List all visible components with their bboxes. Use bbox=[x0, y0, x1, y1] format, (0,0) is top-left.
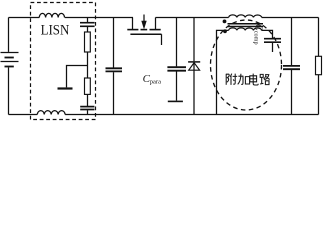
wire C_para branch bbox=[176, 18, 178, 67]
resistor LISN R2 bbox=[85, 78, 91, 94]
label C_comp bbox=[253, 24, 264, 45]
text 路 bbox=[260, 74, 270, 85]
wire bbox=[87, 27, 89, 32]
wire bbox=[193, 62, 195, 115]
LISN dashed box bbox=[31, 3, 96, 120]
wire LISN ground tap bbox=[67, 66, 88, 88]
svg-text:LISN: LISN bbox=[41, 23, 70, 39]
diode D1 bbox=[188, 61, 200, 63]
wire bottom rail right bbox=[65, 114, 318, 116]
wire load branch bottom bbox=[318, 75, 320, 115]
wire LISN shunt top bbox=[87, 18, 89, 23]
wire diode branch bbox=[193, 18, 195, 62]
wire bbox=[87, 110, 89, 114]
wire bbox=[176, 72, 178, 101]
ground bbox=[58, 87, 73, 89]
wire secondary left bbox=[217, 30, 229, 114]
inductor transformer secondary bbox=[229, 28, 262, 31]
svg-text:para: para bbox=[150, 79, 161, 86]
node secondary polarity dot bbox=[223, 29, 227, 33]
wire load branch top bbox=[318, 18, 320, 57]
wire secondary right bbox=[262, 30, 273, 38]
wire top rail left section bbox=[9, 17, 40, 19]
ellipse additional-circuit dashed bbox=[211, 20, 282, 110]
wire bbox=[87, 94, 89, 106]
resistor Rload bbox=[316, 56, 322, 74]
wire top rail mid section bbox=[65, 17, 133, 19]
capacitor C_para bbox=[167, 66, 186, 68]
transistor Q1 body arrow bbox=[141, 21, 146, 30]
inductor transformer primary bbox=[229, 15, 262, 18]
wire top rail right section bbox=[156, 17, 229, 19]
text 附 bbox=[226, 74, 237, 85]
transistor Q1 MOSFET bbox=[127, 15, 161, 46]
text 加 bbox=[238, 74, 250, 85]
capacitor Cout bbox=[283, 65, 300, 67]
wire bbox=[291, 70, 293, 115]
wire bbox=[113, 72, 115, 114]
capacitor Cin bbox=[106, 67, 123, 69]
wire top rail after transformer bbox=[262, 17, 319, 19]
battery V1 bbox=[1, 18, 19, 115]
svg-text:comp: comp bbox=[253, 31, 260, 45]
transformer core bbox=[228, 23, 264, 25]
node open terminal bar bbox=[168, 100, 183, 102]
wire input cap branch bbox=[113, 18, 115, 68]
capacitor C_comp bbox=[264, 38, 281, 40]
inductor LISN bottom coil bbox=[37, 111, 65, 115]
capacitor LISN bottom C bbox=[80, 106, 94, 108]
text 电 bbox=[250, 74, 258, 85]
wire bbox=[272, 43, 274, 52]
node primary polarity dot bbox=[223, 20, 227, 24]
wire output cap branch bbox=[291, 18, 293, 66]
wire bottom rail left bbox=[9, 114, 38, 116]
capacitor LISN top C bbox=[80, 22, 95, 24]
wire bbox=[87, 52, 89, 78]
inductor LISN top coil bbox=[39, 13, 64, 17]
resistor LISN R1 bbox=[85, 32, 91, 52]
